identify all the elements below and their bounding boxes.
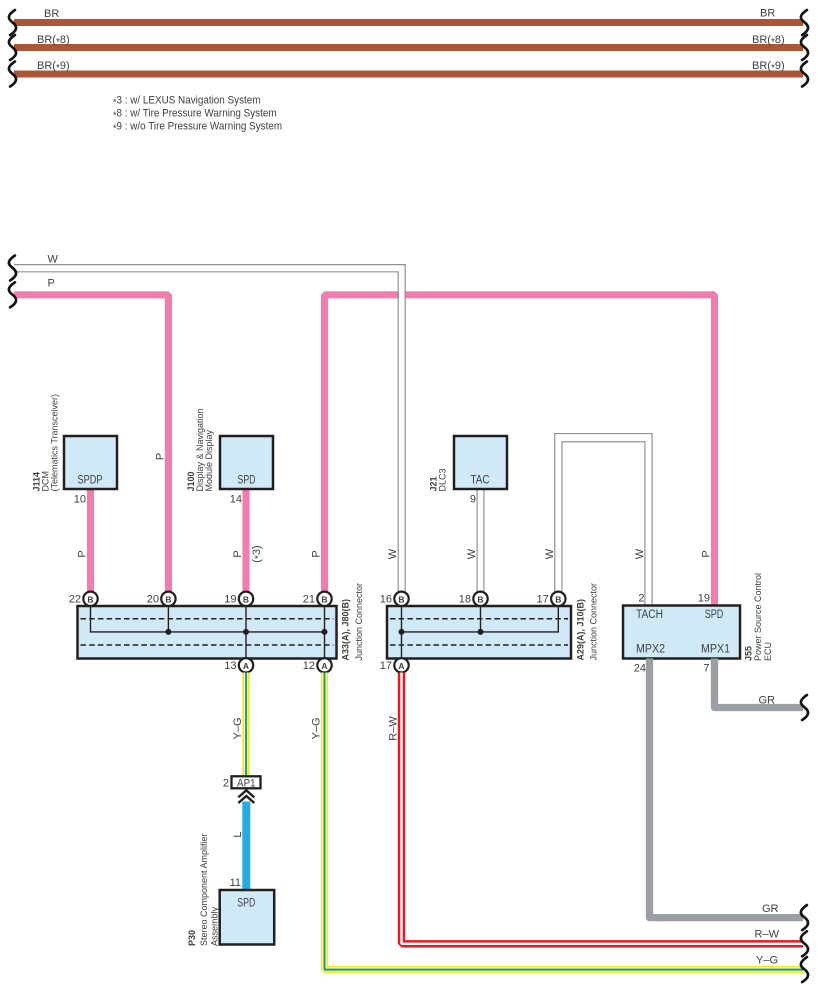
svg-text:ECU: ECU — [763, 642, 773, 661]
svg-text:W: W — [544, 548, 556, 559]
svg-text:14: 14 — [230, 494, 242, 506]
component J21 DLC3 box — [454, 436, 507, 506]
svg-text:SPD: SPD — [237, 898, 255, 910]
component J114 DCM (Telematics Transceiver) box — [64, 436, 117, 506]
svg-text:TAC: TAC — [471, 475, 490, 487]
svg-text:W: W — [387, 548, 399, 559]
svg-text:13: 13 — [224, 660, 236, 672]
svg-text:2: 2 — [223, 777, 229, 789]
svg-text:A33(A), J80(B): A33(A), J80(B) — [341, 599, 351, 661]
component J55 Power Source Control ECU box — [623, 593, 740, 675]
svg-text:L: L — [232, 831, 244, 837]
svg-text:B: B — [398, 594, 404, 604]
break symbol BR(*9) left — [9, 62, 16, 87]
svg-text:B: B — [555, 594, 561, 604]
junction connector A29(A), J10(B) box — [387, 606, 571, 659]
svg-text:Junction Connector: Junction Connector — [589, 583, 599, 661]
svg-text:18: 18 — [459, 594, 471, 606]
svg-text:9: 9 — [470, 494, 476, 506]
wire GR from J55 MPX1 pin 7 to right edge — [715, 659, 804, 708]
svg-text:W: W — [634, 548, 646, 559]
svg-text:10: 10 — [74, 494, 86, 506]
break symbol BR(*8) right — [801, 35, 808, 60]
svg-text:GR: GR — [762, 903, 779, 915]
svg-text:17: 17 — [537, 594, 549, 606]
component P30 Stereo Component Amplifier Assembly box — [220, 890, 275, 945]
wire P (*3) from J100 pin 14 to junction A33 pin 19 — [232, 489, 265, 592]
svg-text:BR: BR — [44, 8, 59, 20]
wire P from J114 pin 10 to junction A33 pin 22 — [76, 489, 90, 592]
pin 21 B — [303, 592, 332, 606]
pin 19 B — [224, 592, 253, 606]
break symbol BR right — [801, 10, 808, 35]
wire BR top — [14, 8, 803, 23]
svg-text:A: A — [398, 661, 404, 671]
connector AP1 — [223, 776, 261, 789]
svg-text:24: 24 — [634, 663, 646, 675]
svg-text:Power Source Control: Power Source Control — [753, 573, 763, 661]
svg-text:P: P — [76, 550, 88, 557]
break symbol W left — [9, 256, 16, 281]
svg-text:*8 : w/ Tire Pressure Warning: *8 : w/ Tire Pressure Warning System — [113, 108, 277, 122]
junction connector A33(A), J80(B) box — [78, 606, 337, 659]
svg-text:BR: BR — [760, 8, 775, 20]
svg-text:*9 : w/o Tire Pressure Warning: *9 : w/o Tire Pressure Warning System — [113, 121, 282, 135]
svg-text:P30: P30 — [187, 930, 197, 946]
svg-text:BR(*8): BR(*8) — [752, 34, 785, 48]
svg-text:B: B — [165, 594, 171, 604]
svg-text:12: 12 — [303, 660, 315, 672]
svg-text:P: P — [154, 453, 166, 460]
svg-text:*3 : w/ LEXUS Navigation Syste: *3 : w/ LEXUS Navigation System — [113, 95, 261, 109]
svg-text:B: B — [477, 594, 483, 604]
svg-text:P: P — [232, 550, 244, 557]
break symbol Y-G right — [801, 957, 808, 982]
break symbol GR bottom right — [801, 905, 808, 930]
wire P from left edge to junction A33 pin 20 — [14, 278, 168, 592]
svg-text:BR(*9): BR(*9) — [37, 60, 70, 74]
svg-text:A: A — [243, 661, 249, 671]
pin 22 B — [69, 592, 98, 606]
pin 20 B — [147, 592, 176, 606]
svg-text:22: 22 — [69, 594, 81, 606]
svg-text:BR(*9): BR(*9) — [752, 60, 785, 74]
svg-text:21: 21 — [303, 594, 315, 606]
break symbol BR(*9) right — [801, 62, 808, 87]
wire R-W from junction A29 pin 17 A to right edge — [387, 673, 803, 944]
svg-text:SPD: SPD — [238, 475, 256, 487]
svg-text:MPX1: MPX1 — [701, 644, 730, 656]
wire W from left edge to junction A29 pin 16 — [14, 254, 405, 592]
wire W from J21 pin 9 to junction A29 pin 18 — [466, 490, 484, 592]
wire W loop from junction A29 pin 17 to J55 TACH pin 2 — [544, 434, 652, 606]
shield / noise-filter symbol (double chevron) — [238, 790, 254, 803]
svg-text:Y–G: Y–G — [756, 955, 778, 967]
svg-text:17: 17 — [380, 660, 392, 672]
svg-text:B: B — [87, 594, 93, 604]
pin 12 A — [303, 658, 332, 672]
pin 17 A — [380, 658, 409, 672]
svg-text:P: P — [310, 550, 322, 557]
svg-text:16: 16 — [380, 594, 392, 606]
component J100 Display &amp; Navigation Module Display box — [220, 436, 273, 506]
pin 13 A — [224, 658, 253, 672]
pin 18 B — [459, 592, 488, 606]
svg-text:TACH: TACH — [636, 609, 663, 621]
svg-text:SPDP: SPDP — [78, 475, 103, 487]
svg-text:Stereo Component Amplifier: Stereo Component Amplifier — [199, 833, 209, 946]
wire GR from J55 MPX2 pin 24 to right edge — [650, 659, 804, 918]
svg-text:R–W: R–W — [755, 929, 780, 941]
pin 17 B — [537, 592, 566, 606]
svg-text:W: W — [48, 254, 59, 266]
svg-text:B: B — [321, 594, 327, 604]
svg-text:SPD: SPD — [705, 609, 724, 621]
wire Y-G from junction A33 pin 13 A to AP1 — [232, 673, 246, 777]
svg-text:DLC3: DLC3 — [438, 468, 448, 491]
svg-text:A: A — [321, 661, 327, 671]
svg-text:MPX2: MPX2 — [636, 644, 665, 656]
svg-text:P: P — [48, 278, 55, 290]
svg-text:20: 20 — [147, 594, 159, 606]
svg-text:(Telematics Transceiver): (Telematics Transceiver) — [49, 394, 59, 492]
svg-text:Module Display: Module Display — [204, 429, 214, 491]
svg-text:19: 19 — [698, 593, 710, 605]
svg-text:(*3): (*3) — [251, 545, 265, 562]
svg-text:Assembly: Assembly — [210, 906, 220, 946]
wire BR(*8) — [14, 34, 803, 48]
break symbol P left — [9, 282, 16, 307]
break symbol BR(*8) left — [9, 35, 16, 60]
break symbol R-W right — [801, 931, 808, 956]
wire Y-G from junction A33 pin 12 A to right edge — [310, 673, 803, 970]
pin 16 B — [380, 592, 409, 606]
svg-text:7: 7 — [703, 663, 709, 675]
svg-text:A29(A), J10(B): A29(A), J10(B) — [576, 599, 586, 661]
svg-text:Junction Connector: Junction Connector — [354, 583, 364, 661]
break symbol GR top right — [801, 695, 808, 720]
svg-text:2: 2 — [638, 593, 644, 605]
break symbol BR left — [9, 10, 16, 35]
wire P from junction A33 pin 21 to J55 SPD pin 19 — [310, 295, 714, 606]
svg-text:W: W — [466, 548, 478, 559]
svg-text:P: P — [700, 550, 712, 557]
svg-text:19: 19 — [224, 594, 236, 606]
wire L from AP1 to P30 pin 11 — [230, 802, 247, 891]
svg-text:AP1: AP1 — [237, 778, 256, 790]
svg-text:BR(*8): BR(*8) — [37, 34, 70, 48]
wire BR(*9) — [14, 60, 803, 74]
svg-text:R–W: R–W — [387, 716, 399, 741]
svg-text:GR: GR — [759, 695, 776, 707]
svg-text:Y–G: Y–G — [232, 717, 244, 739]
svg-text:Y–G: Y–G — [310, 717, 322, 739]
svg-text:B: B — [243, 594, 249, 604]
svg-text:11: 11 — [230, 877, 241, 889]
